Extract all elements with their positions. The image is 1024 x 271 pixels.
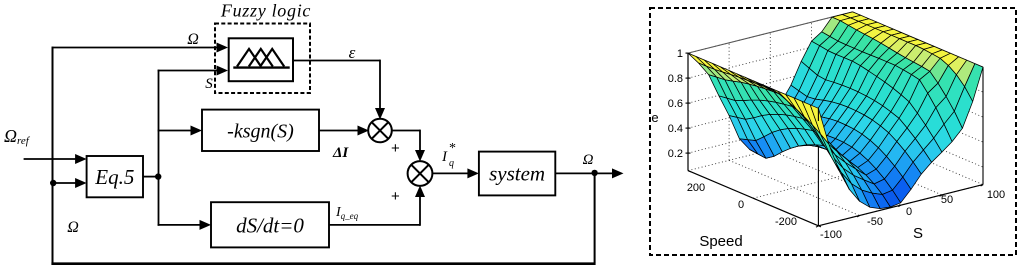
svg-text:-100: -100: [820, 229, 842, 241]
svg-text:ε: ε: [349, 43, 356, 62]
svg-text:S: S: [205, 76, 213, 92]
svg-text:200: 200: [687, 182, 705, 194]
svg-text:0.6: 0.6: [668, 98, 683, 110]
svg-text:Ωref: Ωref: [4, 126, 31, 147]
svg-text:*: *: [449, 141, 456, 156]
svg-text:Ω: Ω: [583, 152, 594, 168]
svg-text:Speed: Speed: [699, 233, 742, 250]
svg-text:Ω: Ω: [67, 219, 79, 236]
svg-text:0: 0: [738, 199, 744, 211]
svg-text:q: q: [449, 158, 454, 169]
svg-text:0.2: 0.2: [668, 148, 683, 160]
svg-text:Eq.5: Eq.5: [94, 165, 134, 189]
svg-text:100: 100: [987, 189, 1005, 201]
svg-text:0.8: 0.8: [668, 73, 683, 85]
svg-text:0.4: 0.4: [668, 123, 683, 135]
svg-text:-200: -200: [775, 216, 797, 228]
svg-text:1: 1: [677, 48, 683, 60]
svg-text:0: 0: [906, 206, 912, 218]
svg-text:Ω: Ω: [187, 31, 199, 48]
svg-text:ΔI: ΔI: [332, 145, 349, 161]
svg-text:system: system: [489, 162, 545, 186]
svg-text:Iq_eq: Iq_eq: [335, 205, 359, 221]
svg-text:50: 50: [941, 194, 953, 206]
svg-text:S: S: [913, 225, 923, 242]
svg-text:-ksgn(S): -ksgn(S): [227, 121, 294, 143]
svg-text:Fuzzy logic: Fuzzy logic: [220, 1, 311, 21]
svg-text:+: +: [391, 140, 400, 157]
svg-text:I: I: [441, 149, 448, 165]
svg-text:dS/dt=0: dS/dt=0: [236, 214, 304, 238]
svg-text:e: e: [651, 110, 658, 125]
svg-text:-50: -50: [867, 216, 883, 228]
svg-text:+: +: [391, 188, 400, 205]
